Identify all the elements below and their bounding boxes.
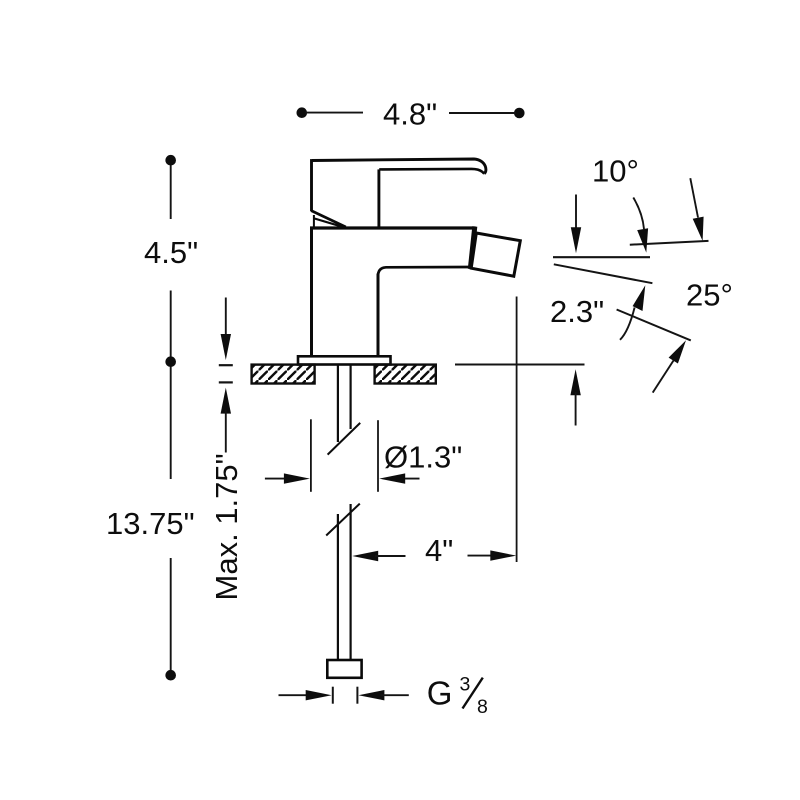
faucet handle base diagonal bbox=[311, 211, 346, 227]
svg-text:2.3": 2.3" bbox=[550, 294, 604, 329]
spout outlet level line bbox=[553, 256, 650, 258]
shank lower left line bbox=[337, 514, 339, 661]
dia 1.3 left arrow shaft bbox=[265, 478, 288, 480]
10 deg right slant arrow shaft bbox=[690, 178, 698, 217]
shank upper left line bbox=[337, 365, 339, 442]
G38 left shaft bbox=[279, 694, 310, 696]
max 1.75 tick top bbox=[219, 364, 233, 366]
10 deg short tilted line bbox=[630, 241, 709, 245]
shank end nut bbox=[327, 660, 361, 678]
body left edge bbox=[310, 227, 313, 357]
shank upper right line bbox=[350, 365, 352, 429]
faucet handle left edge bbox=[310, 159, 313, 211]
dim 4.8 left line bbox=[305, 112, 363, 114]
max 1.75 tick bottom bbox=[219, 381, 233, 383]
25 deg curved arrow tail bbox=[620, 308, 635, 340]
outlet down arrow shaft bbox=[575, 195, 577, 231]
dim 4.8 left dot bbox=[297, 107, 308, 118]
faucet handle neck bbox=[377, 169, 380, 226]
dia 1.3 left extension line bbox=[310, 419, 312, 492]
left dim middle dot bbox=[165, 356, 176, 367]
max 1.75 down arrowhead bbox=[221, 334, 231, 360]
pipe break slash 1 bbox=[328, 423, 361, 455]
25 deg straight arrow shaft bbox=[653, 361, 674, 393]
body top / spout top line bbox=[310, 226, 476, 229]
dim 4 left shaft bbox=[375, 555, 406, 557]
left dim bottom dot bbox=[165, 670, 176, 681]
shank lower right line bbox=[350, 504, 352, 661]
10 deg right slant arrowhead bbox=[693, 217, 704, 241]
dia 1.3 right arrowhead bbox=[379, 473, 405, 483]
spout bottom edge bbox=[378, 267, 471, 276]
countertop surface line right bbox=[455, 364, 585, 366]
10 deg curved arrow tail bbox=[633, 198, 644, 230]
dim 4.8 right dot bbox=[514, 108, 525, 119]
dim 4 left arrowhead bbox=[352, 551, 378, 561]
left dim top dot bbox=[165, 155, 176, 166]
svg-text:3: 3 bbox=[460, 674, 471, 696]
left dim line seg 4 bbox=[170, 558, 172, 671]
spout junction band bbox=[470, 227, 475, 270]
aerator square bbox=[471, 233, 520, 276]
G38 right arrowhead bbox=[358, 690, 384, 700]
svg-text:25°: 25° bbox=[686, 278, 733, 313]
base plate bbox=[298, 356, 391, 364]
left dim line seg 3 bbox=[170, 366, 172, 479]
G38 tick left bbox=[332, 687, 334, 704]
G38 left arrowhead bbox=[306, 690, 332, 700]
svg-text:4.8": 4.8" bbox=[383, 97, 437, 132]
svg-text:Ø1.3": Ø1.3" bbox=[384, 440, 462, 475]
dia 1.3 left arrowhead bbox=[284, 473, 310, 483]
25 deg curved arrowhead bbox=[633, 285, 646, 311]
25 deg straight arrowhead bbox=[669, 340, 686, 363]
pipe break slash 2 bbox=[326, 504, 360, 536]
10 deg curved arrowhead bbox=[637, 228, 648, 252]
max 1.75 upper shaft bbox=[225, 298, 227, 339]
handle wedge lower diagonal bbox=[315, 219, 346, 228]
countertop left slab bbox=[252, 365, 315, 384]
faucet handle underside bbox=[379, 169, 484, 174]
dim 4 right arrowhead bbox=[490, 550, 516, 560]
max 1.75 lower shaft bbox=[225, 410, 227, 453]
dim 4.8 right line bbox=[449, 112, 516, 114]
left dim line seg 2 bbox=[170, 291, 172, 358]
max 1.75 up arrowhead bbox=[221, 388, 231, 414]
svg-text:Max. 1.75": Max. 1.75" bbox=[209, 453, 244, 600]
dia 1.3 right extension line bbox=[377, 420, 379, 492]
handle wedge small vertical bbox=[313, 215, 315, 228]
right extension line bbox=[516, 297, 518, 563]
countertop right slab bbox=[375, 365, 436, 384]
left dim line seg 1 bbox=[170, 165, 172, 219]
svg-text:13.75": 13.75" bbox=[106, 506, 195, 541]
countertop up arrowhead bbox=[570, 369, 580, 395]
body right edge below spout bbox=[377, 274, 380, 358]
dia 1.3 right arrow shaft bbox=[402, 478, 420, 480]
G38 fraction slash bbox=[463, 678, 483, 709]
25 deg steep line bbox=[617, 310, 691, 341]
dim 4 right shaft bbox=[468, 555, 495, 557]
svg-text:4.5": 4.5" bbox=[144, 235, 198, 270]
G38 right shaft bbox=[381, 694, 409, 696]
svg-text:10°: 10° bbox=[592, 154, 639, 189]
faucet handle lever bbox=[312, 159, 486, 174]
G38 tick right bbox=[356, 687, 358, 704]
10 deg slanted line bbox=[554, 264, 653, 283]
svg-text:G: G bbox=[427, 674, 453, 711]
svg-text:4": 4" bbox=[425, 533, 453, 568]
svg-text:8: 8 bbox=[477, 696, 488, 718]
outlet down arrowhead bbox=[571, 227, 581, 253]
countertop up arrow shaft bbox=[575, 392, 577, 426]
